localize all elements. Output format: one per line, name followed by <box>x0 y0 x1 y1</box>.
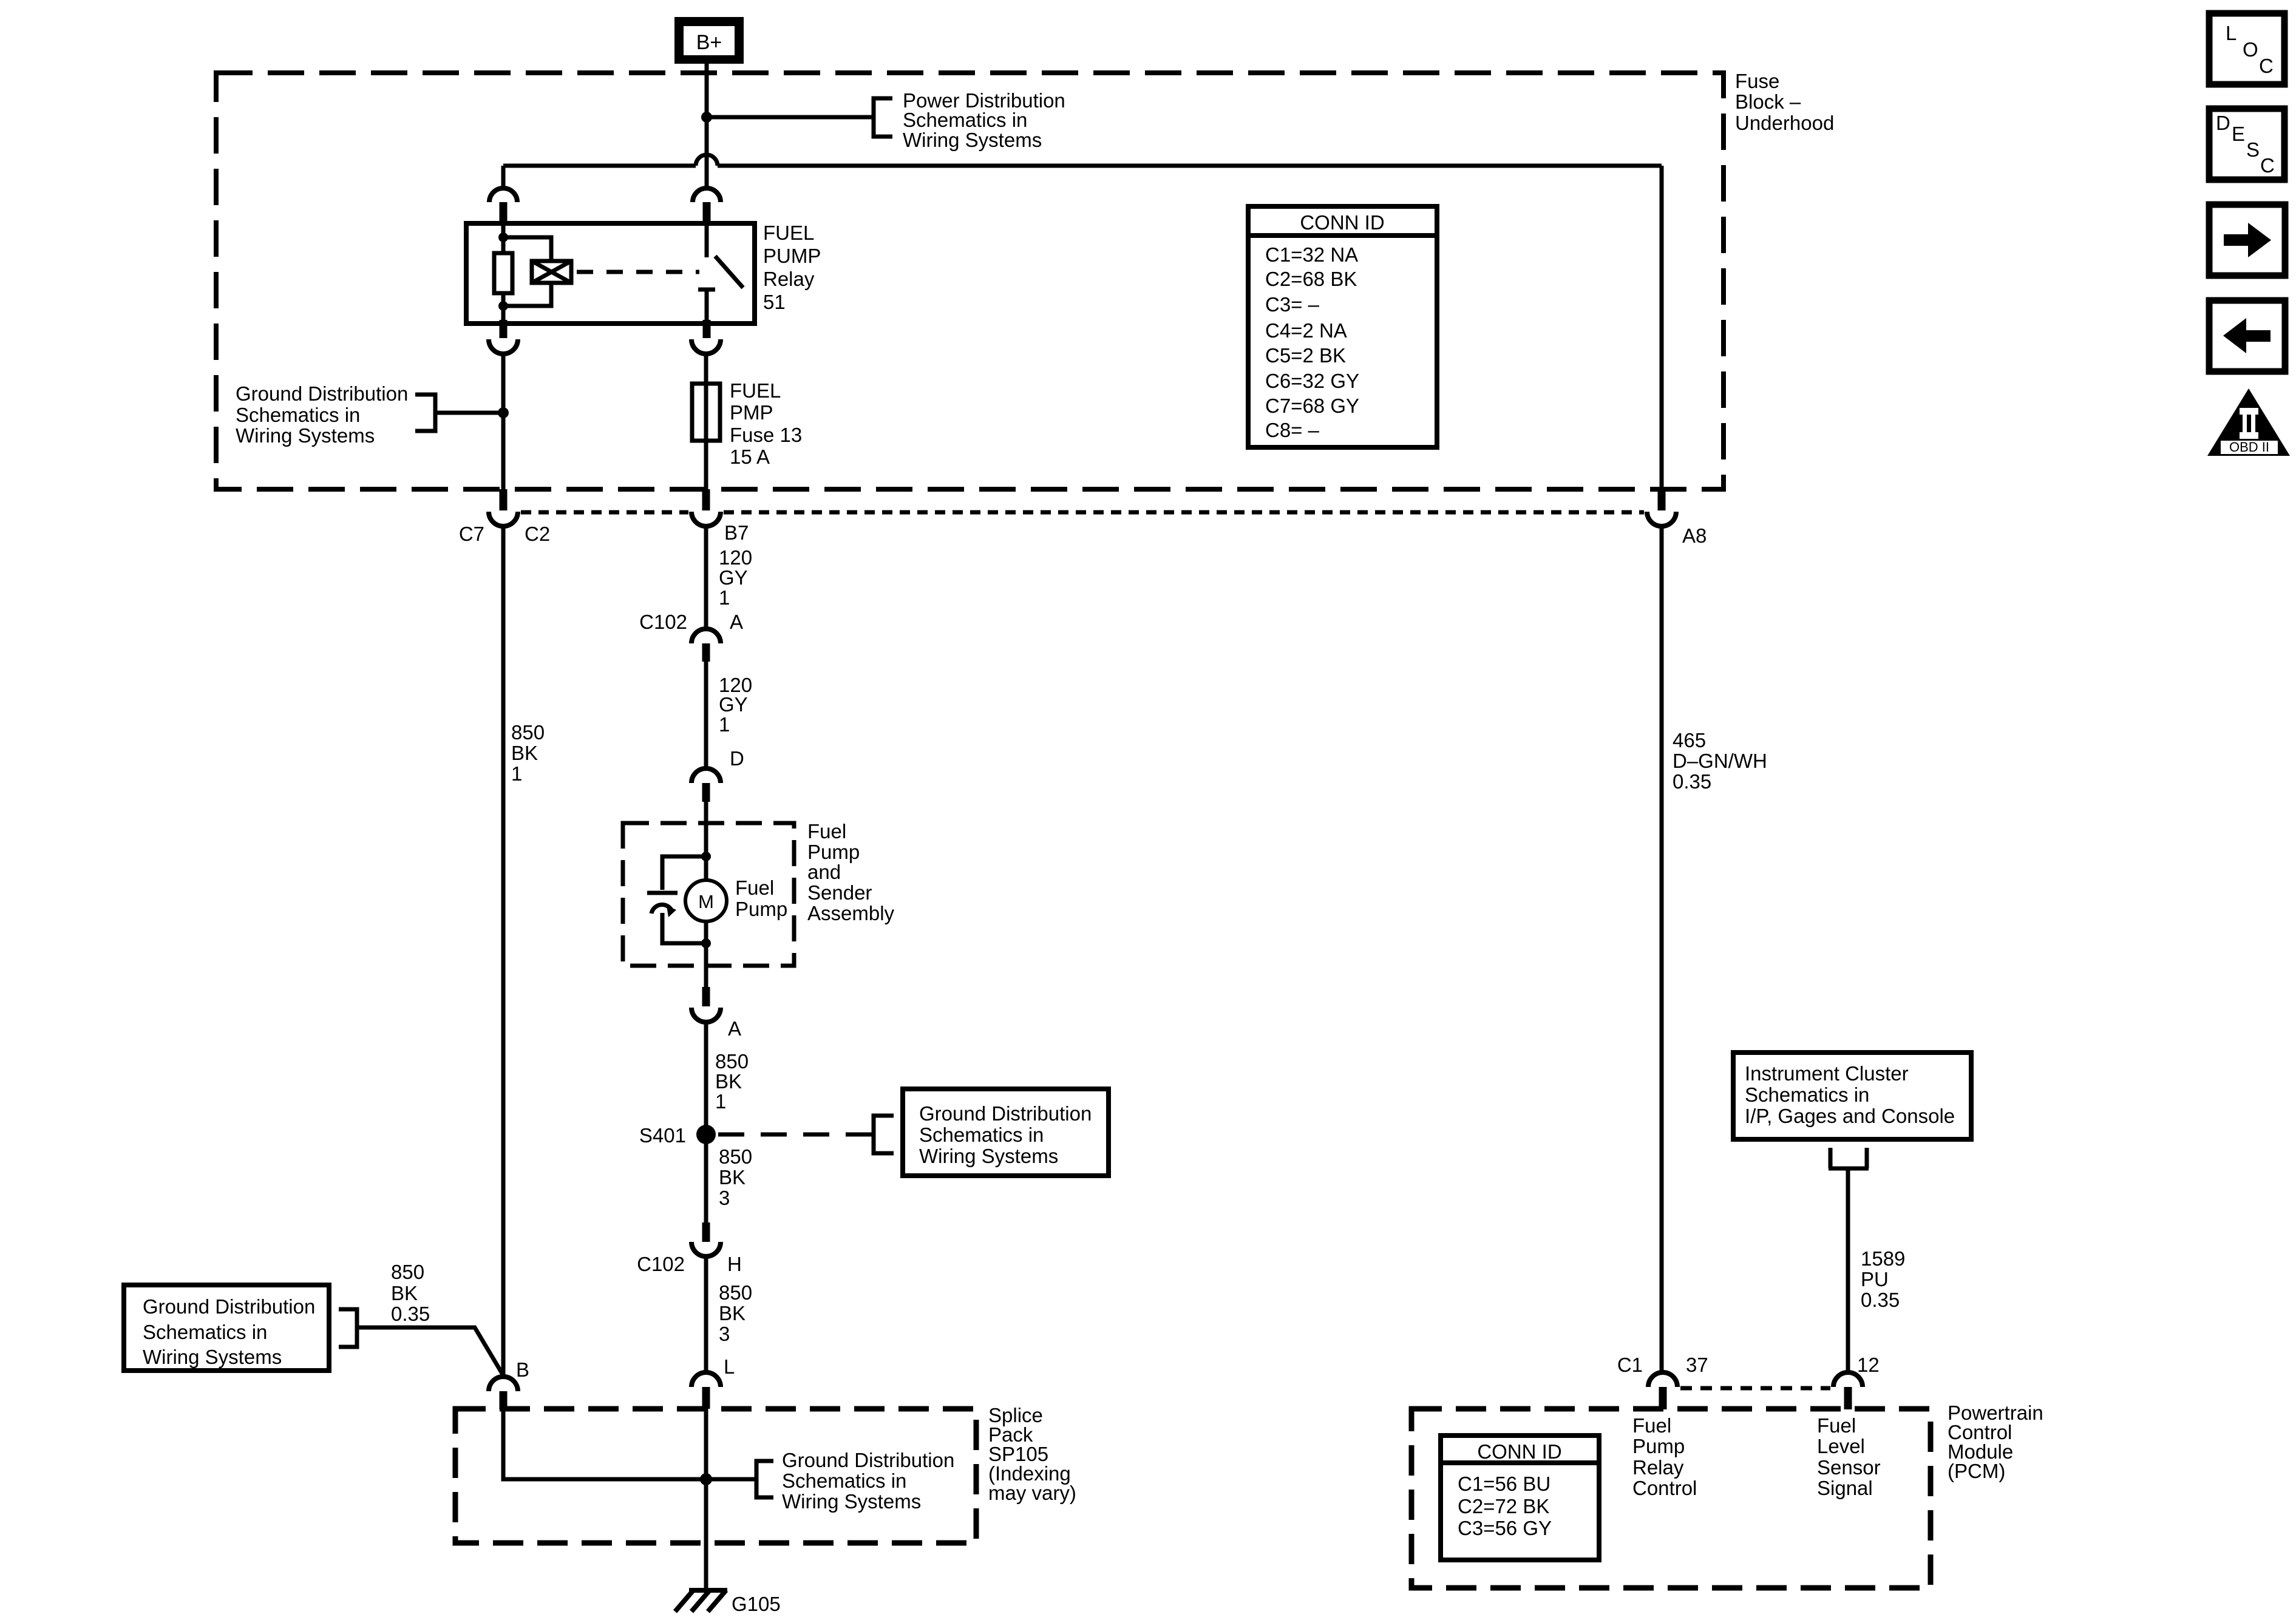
svg-text:C1=56 BU: C1=56 BU <box>1458 1473 1550 1495</box>
svg-text:PUMP: PUMP <box>763 245 821 267</box>
svg-text:S: S <box>2246 138 2260 161</box>
connector dome relay pin 86 (coil feed) <box>489 188 517 202</box>
svg-text:Control: Control <box>1632 1477 1697 1499</box>
pin tick PCM 12 <box>1844 1387 1852 1409</box>
svg-text:A8: A8 <box>1682 524 1707 547</box>
svg-text:Ground Distribution: Ground Distribution <box>919 1102 1092 1125</box>
node coil bottom <box>498 301 508 311</box>
svg-text:Relay: Relay <box>1632 1456 1684 1479</box>
box Ground Distribution callout (bottom left) <box>124 1285 329 1371</box>
svg-text:Relay: Relay <box>763 268 815 290</box>
connector cup A8 <box>1647 512 1676 526</box>
svg-text:Wiring Systems: Wiring Systems <box>143 1346 282 1368</box>
wire relay pin 87 down through fuse to exit B7 <box>704 354 708 489</box>
box Ground Distribution callout (S401) <box>903 1089 1109 1176</box>
label 465 D-GN/WH 0.35 <box>1673 729 1767 793</box>
svg-text:C3= –: C3= – <box>1265 293 1320 316</box>
svg-text:FUEL: FUEL <box>763 222 814 244</box>
wire 465 D-GN/WH (A8 to PCM C1) <box>1660 526 1664 1372</box>
label Powertrain Control Module (PCM) <box>1948 1402 2043 1482</box>
svg-text:C4=2 NA: C4=2 NA <box>1265 319 1347 342</box>
svg-text:850: 850 <box>719 1281 752 1304</box>
svg-text:OBD II: OBD II <box>2229 439 2269 455</box>
node junction on B+ wire <box>701 112 712 123</box>
svg-text:M: M <box>698 891 714 912</box>
wire 1589 PU (cluster to PCM 12) <box>1846 1168 1850 1372</box>
label FUEL PUMP Relay 51 <box>763 222 821 313</box>
fuel pump and sender assembly dashed box <box>623 823 794 966</box>
pin tick C102 A <box>702 643 710 662</box>
svg-text:Schematics in: Schematics in <box>919 1124 1044 1146</box>
svg-text:D–GN/WH: D–GN/WH <box>1673 750 1767 772</box>
svg-text:and: and <box>807 861 841 883</box>
wire coil branch top <box>501 223 506 253</box>
svg-text:D: D <box>2216 112 2230 134</box>
svg-text:37: 37 <box>1686 1354 1708 1376</box>
label 850 BK 1 (coil ground wire) <box>511 721 545 785</box>
CONN ID table (PCM) <box>1441 1436 1599 1560</box>
icon next arrow button <box>2209 205 2285 276</box>
relay box FUEL PUMP Relay 51 <box>466 223 755 324</box>
CONN ID table (fuse block) <box>1248 206 1437 447</box>
svg-text:850: 850 <box>511 721 545 744</box>
pin tick B <box>500 1391 508 1409</box>
PCM dashed box <box>1411 1409 1931 1588</box>
svg-text:Signal: Signal <box>1817 1477 1873 1499</box>
svg-text:Schematics in: Schematics in <box>1745 1083 1869 1106</box>
svg-text:B+: B+ <box>696 31 722 54</box>
B+ power feed symbol <box>674 17 744 64</box>
dotted connector line C2/C6 (left of B7) <box>521 510 688 515</box>
label 850 BK 1 <box>715 1050 749 1113</box>
svg-text:C1=32 NA: C1=32 NA <box>1265 243 1358 266</box>
svg-text:C: C <box>2260 154 2275 177</box>
svg-text:120: 120 <box>719 546 752 569</box>
connector cup below relay pin 87 <box>691 339 721 354</box>
svg-text:12: 12 <box>1857 1354 1880 1376</box>
svg-text:0.35: 0.35 <box>1861 1289 1900 1311</box>
svg-text:C102: C102 <box>639 611 687 633</box>
bracket splice callout <box>756 1461 773 1497</box>
pin tick relay pin 30 <box>703 202 711 224</box>
svg-text:I/P, Gages and Console: I/P, Gages and Console <box>1745 1105 1955 1127</box>
svg-text:(PCM): (PCM) <box>1948 1460 2005 1482</box>
svg-text:Level: Level <box>1817 1435 1865 1457</box>
svg-text:Fuse: Fuse <box>1735 70 1779 92</box>
fuse block underhood dashed border <box>216 73 1724 489</box>
svg-text:BK: BK <box>719 1302 746 1324</box>
svg-text:Underhood: Underhood <box>1735 112 1834 134</box>
svg-text:L: L <box>724 1355 735 1378</box>
pin tick L <box>702 1387 710 1409</box>
pin tick D <box>702 783 710 802</box>
icon OBD II triangle <box>2207 388 2290 456</box>
bracket Ground Distribution callout <box>415 395 435 431</box>
dotted connector line (B7 to A8) <box>724 510 1644 515</box>
dashed reference line S401 to callout <box>718 1133 874 1137</box>
wire 850 BK 1 (pump A to S401) <box>704 1022 708 1222</box>
svg-text:Fuel: Fuel <box>807 820 846 842</box>
connector cup below relay pin 85 <box>489 339 518 354</box>
wire coil ground C7 down to B <box>501 526 506 1377</box>
wire 120 GY 1 (B7 to C102 A) <box>704 526 708 629</box>
label 120 GY 1 <box>719 546 752 609</box>
node pump motor top <box>701 852 711 861</box>
curved arrow (one-way valve) <box>651 904 676 917</box>
svg-text:C1: C1 <box>1617 1354 1643 1376</box>
svg-text:PMP: PMP <box>730 401 773 424</box>
svg-text:CONN ID: CONN ID <box>1477 1440 1561 1463</box>
svg-text:G105: G105 <box>732 1593 781 1615</box>
svg-text:O: O <box>2243 38 2258 61</box>
label 850 BK 0.35 <box>391 1261 430 1325</box>
svg-text:Ground Distribution: Ground Distribution <box>782 1449 954 1471</box>
svg-text:850: 850 <box>719 1145 752 1168</box>
icon LOC button <box>2209 13 2284 84</box>
label Power Distribution Schematics in Wiring Systems <box>903 89 1065 151</box>
svg-text:15 A: 15 A <box>730 446 770 468</box>
relay switch fixed contact top <box>705 223 709 257</box>
pin tick pump A <box>702 987 710 1006</box>
splice pack SP105 dashed box <box>455 1409 976 1543</box>
check valve plate <box>647 891 678 895</box>
wire parallel branch to coil <box>503 237 551 306</box>
svg-text:BK: BK <box>715 1070 742 1093</box>
connector dome B <box>489 1377 518 1391</box>
label Ground Distribution callout (inside fuse block) <box>236 382 408 447</box>
connector cup A <box>691 1008 721 1022</box>
svg-text:C6=32 GY: C6=32 GY <box>1265 370 1359 392</box>
label FUEL PMP Fuse 13 15 A <box>730 379 802 468</box>
wire pump to connector A <box>704 943 708 988</box>
label 850 BK 3 <box>719 1281 752 1345</box>
label Fuse Block - Underhood <box>1735 70 1834 134</box>
wire relay control feed horizontal (coil to PCM A8) with hop over B+ wire <box>503 155 1662 489</box>
motor M fuel pump <box>685 880 727 921</box>
svg-text:Pump: Pump <box>735 898 787 920</box>
label 120 GY 1 <box>719 674 752 736</box>
splice S401 <box>696 1125 716 1144</box>
svg-text:1: 1 <box>715 1090 726 1113</box>
svg-text:Pump: Pump <box>1632 1435 1685 1457</box>
svg-text:1: 1 <box>719 713 730 736</box>
svg-text:0.35: 0.35 <box>1673 770 1711 793</box>
pin tick C102 H <box>702 1222 710 1242</box>
svg-text:C2: C2 <box>525 523 550 545</box>
pin tick PCM 37 <box>1659 1387 1667 1409</box>
svg-text:Sender: Sender <box>807 881 872 904</box>
pin tick relay pin 86 <box>500 202 508 224</box>
label Fuel Level Sensor Signal <box>1817 1414 1881 1499</box>
svg-text:850: 850 <box>391 1261 424 1283</box>
svg-text:GY: GY <box>719 693 748 716</box>
svg-text:B: B <box>516 1358 529 1381</box>
connector dome D <box>691 768 721 783</box>
svg-text:3: 3 <box>719 1187 730 1209</box>
svg-text:D: D <box>730 747 744 770</box>
svg-text:Fuse 13: Fuse 13 <box>730 424 802 446</box>
wire into pump <box>704 802 708 943</box>
svg-text:E: E <box>2232 123 2245 145</box>
bracket Power Distribution callout <box>874 98 892 137</box>
svg-text:B7: B7 <box>724 521 749 544</box>
svg-text:C2=68 BK: C2=68 BK <box>1265 268 1357 290</box>
bracket bottom left callout <box>339 1309 357 1347</box>
svg-text:465: 465 <box>1673 729 1706 751</box>
pin tick relay pin 87 bottom <box>703 320 711 338</box>
wire B leg inside splice pack <box>503 1409 756 1479</box>
svg-text:BK: BK <box>391 1282 418 1304</box>
ground G105 symbol <box>675 1590 727 1612</box>
svg-text:Schematics in: Schematics in <box>782 1470 906 1492</box>
label Ground Distribution callout (splice) <box>782 1449 954 1513</box>
label Fuel Pump and Sender Assembly <box>807 820 895 924</box>
svg-text:Fuel: Fuel <box>735 876 774 899</box>
dotted connector line C1 (37 to 12) <box>1680 1386 1830 1391</box>
svg-text:Pump: Pump <box>807 841 860 863</box>
svg-text:C2=72 BK: C2=72 BK <box>1458 1495 1549 1517</box>
svg-text:0.35: 0.35 <box>391 1303 430 1325</box>
pin tick fuse block exit B7 <box>702 489 710 510</box>
connector cup C7/C2 <box>489 512 518 526</box>
svg-text:3: 3 <box>719 1323 730 1345</box>
svg-text:Ground Distribution: Ground Distribution <box>236 382 408 405</box>
svg-text:may vary): may vary) <box>988 1482 1076 1504</box>
svg-text:51: 51 <box>763 291 786 313</box>
label Splice Pack SP105 <box>988 1404 1076 1504</box>
svg-text:GY: GY <box>719 566 748 589</box>
svg-text:Schematics in: Schematics in <box>143 1321 267 1343</box>
svg-text:Ground Distribution: Ground Distribution <box>143 1295 315 1318</box>
svg-text:Instrument Cluster: Instrument Cluster <box>1745 1062 1909 1085</box>
wire below resistor <box>501 293 506 324</box>
wire relay pin 85 down to fuse block exit C7 <box>501 354 506 489</box>
svg-text:1589: 1589 <box>1861 1247 1905 1270</box>
connector dome PCM 12 <box>1833 1372 1863 1387</box>
svg-text:CONN ID: CONN ID <box>1300 211 1384 234</box>
icon previous arrow button <box>2209 300 2285 371</box>
svg-text:FUEL: FUEL <box>730 379 781 402</box>
relay switch blade <box>715 256 743 288</box>
svg-text:C3=56 GY: C3=56 GY <box>1458 1517 1552 1539</box>
label 1589 PU 0.35 <box>1861 1247 1905 1311</box>
svg-text:H: H <box>727 1253 742 1275</box>
svg-text:A: A <box>730 611 743 633</box>
pin tick fuse block exit A8 <box>1658 489 1666 510</box>
svg-text:C7=68 GY: C7=68 GY <box>1265 395 1359 417</box>
svg-text:Block –: Block – <box>1735 90 1801 113</box>
connector dome L <box>691 1372 721 1387</box>
wire 120 GY 1 (C102 to pump D) <box>704 662 708 769</box>
svg-text:Fuel: Fuel <box>1632 1414 1671 1437</box>
svg-text:C: C <box>2259 55 2274 77</box>
svg-text:Wiring Systems: Wiring Systems <box>903 129 1042 151</box>
relay switch lower contact <box>698 290 715 324</box>
wire 850 BK 3 (C102 H to L) <box>704 1256 708 1372</box>
icon DESC button <box>2209 109 2284 180</box>
node coil top <box>498 232 508 242</box>
fuse FUEL PMP Fuse 13 15A <box>692 384 720 441</box>
svg-text:850: 850 <box>715 1050 749 1073</box>
pin tick relay pin 85 bottom <box>500 320 508 338</box>
connector dome relay pin 30 (B+ feed) <box>693 188 721 202</box>
svg-text:S401: S401 <box>639 1124 686 1147</box>
svg-text:Fuel: Fuel <box>1817 1414 1856 1437</box>
svg-text:Assembly: Assembly <box>807 902 895 924</box>
label Fuel Pump Relay Control <box>1632 1414 1697 1499</box>
node on coil ground wire <box>498 407 509 418</box>
svg-text:BK: BK <box>511 742 538 764</box>
svg-text:C8= –: C8= – <box>1265 419 1320 441</box>
svg-text:Schematics in: Schematics in <box>236 404 360 426</box>
node splice bus junction <box>700 1473 712 1485</box>
svg-text:C7: C7 <box>459 523 484 545</box>
svg-text:C5=2 BK: C5=2 BK <box>1265 344 1346 367</box>
node pump motor bottom <box>701 938 711 948</box>
connector cup C102 H <box>691 1242 721 1256</box>
wire callout to B with diagonal <box>357 1327 503 1375</box>
wire branch to Power Distribution callout <box>707 115 874 120</box>
svg-text:A: A <box>728 1017 741 1040</box>
box Instrument Cluster callout <box>1733 1053 1971 1139</box>
svg-text:BK: BK <box>719 1166 746 1188</box>
resistor (relay coil suppression) <box>494 253 512 293</box>
connector dome PCM C1-37 <box>1648 1372 1677 1387</box>
svg-text:C102: C102 <box>637 1253 685 1275</box>
relay coil (box with X) <box>532 261 571 283</box>
dashed actuator link coil to switch <box>577 270 699 274</box>
svg-text:Wiring Systems: Wiring Systems <box>236 424 375 447</box>
svg-text:PU: PU <box>1861 1268 1889 1290</box>
svg-text:L: L <box>2226 22 2237 44</box>
bracket S401 callout <box>874 1116 894 1153</box>
check valve branch wiring <box>662 856 706 943</box>
wire L leg down to ground <box>704 1408 708 1590</box>
svg-text:1: 1 <box>719 586 730 609</box>
wire callout to coil ground wire <box>435 411 503 415</box>
label 850 BK 3 <box>719 1145 752 1209</box>
bracket below instrument cluster box <box>1829 1148 1869 1168</box>
pin tick fuse block exit C7 <box>500 489 508 510</box>
svg-text:1: 1 <box>511 762 522 785</box>
wire B+ down to relay switch pin <box>705 64 709 189</box>
svg-text:Wiring Systems: Wiring Systems <box>782 1490 921 1513</box>
svg-text:Sensor: Sensor <box>1817 1456 1881 1479</box>
svg-text:Schematics in: Schematics in <box>903 109 1027 131</box>
svg-text:Wiring Systems: Wiring Systems <box>919 1145 1058 1167</box>
connector cup B7 <box>691 512 721 526</box>
connector dome C102 A <box>691 629 721 643</box>
label Fuel Pump (motor) <box>735 876 787 920</box>
